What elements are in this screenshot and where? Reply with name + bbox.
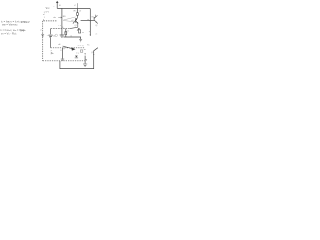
mid lower wire	[64, 37, 81, 39]
diag wire to source cluster	[70, 27, 78, 28]
svg-text:vo: vo	[87, 19, 89, 21]
VCC stem wire	[56, 3, 58, 9]
iC arrow above rail	[76, 3, 78, 8]
top rail wire	[57, 8, 90, 35]
transistor Q2	[94, 16, 98, 24]
resistor RB wire	[61, 8, 63, 34]
junction dot	[90, 20, 91, 21]
svg-text:=: =	[44, 17, 46, 19]
ground G1	[60, 35, 65, 37]
ground G2	[79, 40, 82, 42]
VBE branch vertical	[50, 29, 52, 48]
svg-text:vbe: vbe	[53, 17, 56, 19]
svg-text:RC: RC	[87, 44, 90, 46]
resistor r_pi body	[65, 32, 67, 35]
Q1 center dot	[76, 19, 77, 20]
battery VBE short bar	[49, 36, 52, 38]
svg-text:βib: βib	[51, 52, 54, 55]
ground G4 stem	[84, 56, 86, 64]
transistor Q1	[76, 18, 79, 23]
svg-text:ie =: ie =	[76, 53, 80, 55]
svg-text:vE: vE	[58, 44, 60, 46]
resistor r_pi stem	[65, 29, 67, 32]
svg-text:RC: RC	[74, 11, 78, 13]
svg-text:p: p	[51, 50, 53, 52]
svg-text:iB: iB	[59, 5, 61, 7]
svg-text:vi: vi	[40, 29, 42, 31]
dashed input left wire	[42, 21, 44, 61]
dep source arrow	[77, 28, 79, 30]
svg-text:iC: iC	[74, 5, 77, 7]
Q1 base diagonal	[73, 20, 76, 24]
battery VBE long bar	[49, 34, 53, 36]
svg-text:RB: RB	[63, 16, 66, 18]
current tick on right vert	[89, 31, 90, 33]
bottom return wire	[60, 48, 98, 69]
iB arrow tick	[58, 17, 62, 18]
Q2 emitter arrow	[96, 21, 97, 22]
leader line upper	[63, 17, 75, 20]
arrowhead bottom of right vert	[90, 35, 91, 36]
Q1 emitter wire down	[77, 23, 79, 27]
Q2 collector tick	[97, 15, 98, 17]
big arrowhead	[71, 47, 75, 50]
Q1 emitter arrow	[77, 22, 79, 24]
leader line lower	[63, 21, 76, 22]
svg-text:VCC: VCC	[46, 7, 51, 10]
mid dashed wire horizontal	[51, 28, 70, 30]
svg-text:+: +	[53, 6, 55, 8]
svg-text:Q2: Q2	[95, 25, 97, 27]
svg-text:Q1: Q1	[74, 25, 77, 27]
resistor r_pi stem low	[65, 35, 67, 37]
resistor RC body	[77, 13, 79, 16]
svg-text:= 5 V: = 5 V	[44, 11, 50, 13]
svg-text:vπ: vπ	[67, 30, 69, 32]
arrow on right vert	[93, 54, 94, 55]
svg-text:= 5 mV: = 5 mV	[21, 20, 30, 24]
small component box lower right	[80, 50, 82, 52]
ground G4 arrow	[84, 53, 85, 54]
ground G3 bars	[61, 59, 64, 60]
dashed bottom wire	[43, 60, 85, 62]
VCC supply arrow	[56, 1, 59, 3]
svg-text:vO = VC - RCic: vO = VC - RCic	[1, 31, 17, 35]
resistor RC wire bottom	[76, 15, 78, 18]
svg-text:vo = -g: vo = -g	[78, 45, 84, 47]
svg-text:ve: ve	[95, 33, 97, 35]
svg-text:vo: vo	[82, 32, 84, 34]
svg-text:vO: vO	[79, 11, 82, 13]
collector node wire	[81, 20, 94, 22]
arrow near dashed end	[86, 59, 88, 61]
input corner tick	[43, 19, 45, 21]
ground G3 stem	[62, 48, 64, 59]
svg-text:Q3: Q3	[91, 52, 94, 54]
Q2 top tick	[94, 15, 97, 17]
big diag arrow line	[63, 46, 72, 49]
ground G4 bars	[83, 64, 87, 67]
battery V on dashed wire	[41, 35, 44, 36]
tick below dashed wire	[63, 48, 65, 50]
lower dashed wire	[51, 47, 85, 49]
dark triangle marker	[75, 56, 78, 58]
resistor RC wire top	[76, 8, 78, 12]
svg-text:E: E	[60, 50, 62, 52]
dependent source box	[79, 30, 81, 33]
svg-text:+ v: + v	[58, 25, 61, 27]
small sine circle	[55, 34, 57, 36]
bar under triangle	[75, 57, 78, 59]
svg-text:vO: vO	[71, 20, 74, 22]
svg-text:ie: ie	[84, 49, 85, 51]
dashed input top wire	[44, 20, 57, 22]
